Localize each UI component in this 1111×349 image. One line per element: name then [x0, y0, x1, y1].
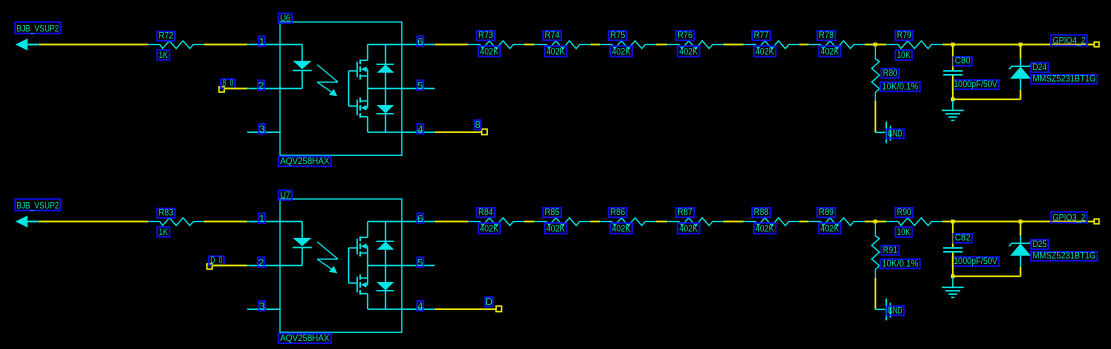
svg-text:BJB_VSUP2: BJB_VSUP2 [17, 200, 59, 210]
svg-text:5: 5 [417, 257, 423, 269]
svg-text:1000pF/50V: 1000pF/50V [954, 256, 998, 266]
svg-text:R73: R73 [478, 30, 493, 40]
svg-text:D_0: D_0 [210, 255, 222, 265]
svg-text:2: 2 [258, 257, 264, 269]
svg-text:1000pF/50V: 1000pF/50V [954, 79, 998, 89]
svg-text:GPIO3_2: GPIO3_2 [1053, 213, 1086, 223]
svg-text:10K/0.1%: 10K/0.1% [882, 81, 919, 91]
svg-text:402K: 402K [821, 47, 840, 57]
svg-text:AQV258HAX: AQV258HAX [280, 333, 329, 343]
svg-text:R79: R79 [897, 30, 912, 40]
svg-text:R74: R74 [545, 30, 560, 40]
svg-text:R88: R88 [754, 207, 769, 217]
svg-text:R85: R85 [545, 207, 560, 217]
svg-text:8_0: 8_0 [222, 78, 233, 88]
svg-text:R75: R75 [610, 30, 625, 40]
svg-text:R84: R84 [478, 207, 493, 217]
svg-text:R78: R78 [819, 30, 834, 40]
svg-text:402K: 402K [755, 47, 774, 57]
svg-text:402K: 402K [612, 224, 631, 234]
svg-text:GND: GND [888, 128, 903, 138]
svg-text:3: 3 [259, 301, 265, 313]
svg-text:R89: R89 [819, 207, 834, 217]
svg-text:402K: 402K [480, 224, 499, 234]
svg-text:U7: U7 [280, 190, 290, 200]
svg-text:4: 4 [417, 124, 423, 136]
svg-text:R90: R90 [897, 207, 912, 217]
svg-text:402K: 402K [821, 224, 840, 234]
svg-text:5: 5 [417, 80, 423, 92]
svg-text:10K: 10K [897, 50, 911, 60]
svg-text:D: D [485, 297, 492, 308]
svg-text:2: 2 [258, 80, 264, 92]
svg-text:MMSZ5231BT1G: MMSZ5231BT1G [1033, 74, 1096, 84]
svg-text:402K: 402K [679, 47, 698, 57]
svg-text:1K: 1K [159, 50, 168, 60]
svg-text:R72: R72 [159, 31, 174, 41]
svg-text:1: 1 [259, 36, 265, 48]
svg-text:8: 8 [475, 120, 481, 131]
svg-text:6: 6 [417, 36, 423, 48]
svg-text:402K: 402K [546, 47, 565, 57]
svg-text:402K: 402K [679, 224, 698, 234]
svg-text:3: 3 [259, 124, 265, 136]
svg-text:R76: R76 [678, 30, 693, 40]
svg-text:C80: C80 [955, 56, 971, 66]
svg-text:402K: 402K [755, 224, 774, 234]
svg-text:D25: D25 [1033, 239, 1047, 249]
svg-text:1K: 1K [159, 227, 168, 237]
svg-text:D24: D24 [1033, 62, 1047, 72]
svg-text:C82: C82 [955, 233, 971, 243]
svg-text:402K: 402K [546, 224, 565, 234]
svg-text:R87: R87 [678, 207, 693, 217]
svg-text:6: 6 [417, 213, 423, 225]
svg-text:1: 1 [259, 213, 265, 225]
svg-text:MMSZ5231BT1G: MMSZ5231BT1G [1033, 251, 1096, 261]
svg-text:402K: 402K [480, 47, 499, 57]
svg-text:AQV258HAX: AQV258HAX [280, 156, 329, 166]
svg-text:GPIO4_2: GPIO4_2 [1053, 36, 1086, 46]
svg-text:BJB_VSUP2: BJB_VSUP2 [17, 23, 59, 33]
svg-text:R83: R83 [159, 208, 174, 218]
svg-text:R80: R80 [883, 68, 898, 78]
svg-text:10K/0.1%: 10K/0.1% [882, 258, 919, 268]
svg-text:R77: R77 [754, 30, 769, 40]
svg-text:GND: GND [888, 305, 903, 315]
svg-text:R86: R86 [610, 207, 625, 217]
svg-text:U6: U6 [280, 13, 290, 23]
svg-text:10K: 10K [897, 227, 911, 237]
svg-text:4: 4 [417, 301, 423, 313]
svg-text:R91: R91 [883, 245, 898, 255]
svg-text:402K: 402K [612, 47, 631, 57]
